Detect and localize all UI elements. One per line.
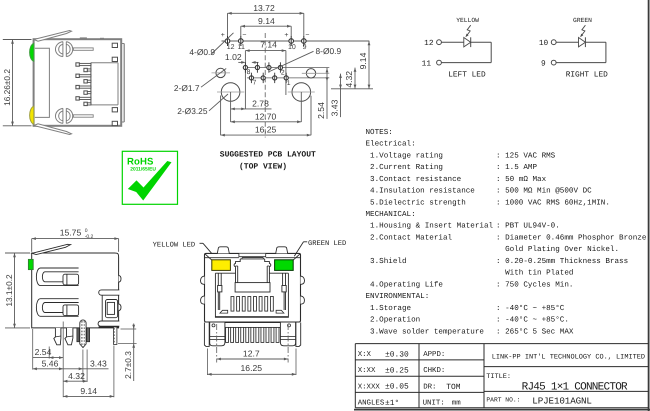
dim 9.14 (vert): [368, 41, 370, 89]
svg-text:13.72: 13.72: [253, 3, 275, 13]
svg-text:TITLE:: TITLE:: [486, 373, 511, 381]
svg-text:ENVIRONMENTAL:: ENVIRONMENTAL:: [366, 292, 430, 301]
cavity corner feet: [220, 310, 228, 313]
svg-text:: -40°C ~ +85°C.: : -40°C ~ +85°C.: [496, 316, 569, 325]
svg-text:CHKD:: CHKD:: [423, 367, 445, 375]
svg-text:−: −: [305, 32, 309, 39]
dim 3.43 (vert): [340, 74, 342, 118]
wire diode to corner: [471, 41, 492, 43]
dim 16.25 ext lines: [206, 349, 208, 376]
green LED (side view 2): [28, 259, 33, 269]
svg-text:10: 10: [539, 39, 549, 48]
svg-text:±0.30: ±0.30: [385, 350, 409, 359]
yellow LED lens (side view): [30, 106, 34, 124]
svg-text:: 125 VAC RMS: : 125 VAC RMS: [496, 151, 556, 160]
base left block: [210, 323, 225, 346]
side view body (top-left, gray): [34, 39, 122, 126]
top centre tab: [239, 254, 266, 257]
svg-text:: PBT UL94V-0.: : PBT UL94V-0.: [496, 222, 560, 231]
rows col3: [484, 366, 649, 368]
svg-text:APPD:: APPD:: [423, 351, 445, 359]
pcb ext lines: [227, 13, 229, 36]
lightning arrow (left led): [467, 25, 471, 36]
mount hole Ø1.7 left: [216, 68, 225, 77]
svg-text:: 0.20-0.25mm Thickness Brass: : 0.20-0.25mm Thickness Brass: [496, 257, 628, 266]
svg-text:Electrical:: Electrical:: [366, 140, 416, 149]
wire down: [490, 42, 492, 62]
svg-text:1.Voltage rating: 1.Voltage rating: [366, 151, 443, 160]
svg-text:11: 11: [238, 44, 245, 51]
svg-text:+: +: [221, 32, 225, 39]
green LED lens (side view): [30, 43, 34, 61]
base flange: [206, 322, 299, 324]
title block frame: [355, 343, 648, 345]
dim 15.75 0/-0.2: [32, 238, 119, 240]
spring contact U2: [36, 299, 78, 317]
svg-text:+: +: [284, 32, 288, 39]
inner top line: [205, 257, 239, 259]
dim 15.75 ext lines: [31, 239, 33, 252]
pin carrier block: [91, 63, 118, 105]
signal pins row2 (7,...,1): [249, 76, 253, 80]
top edge detail marks: [80, 37, 87, 39]
rows col1/2: [355, 359, 484, 361]
svg-text:RIGHT LED: RIGHT LED: [566, 71, 608, 80]
svg-text:2.Operation: 2.Operation: [366, 316, 421, 325]
svg-text:11: 11: [422, 60, 432, 69]
svg-text:2011/65/EU: 2011/65/EU: [130, 166, 156, 172]
svg-text:3.Shield: 3.Shield: [366, 257, 407, 266]
contact comb: [231, 297, 234, 312]
svg-text:YELLOW LED: YELLOW LED: [153, 242, 196, 250]
svg-text:: 1.5 AMP: : 1.5 AMP: [496, 164, 537, 172]
svg-text:: 50 mΩ Max: : 50 mΩ Max: [496, 175, 547, 184]
pins comb: [76, 63, 91, 65]
svg-text:4-Ø0.9: 4-Ø0.9: [189, 47, 215, 57]
dim 2.7±0.3 ext lines: [121, 328, 137, 330]
svg-text:16.25: 16.25: [255, 125, 277, 135]
side bumps right: [301, 276, 305, 284]
mounting post housing lip: [99, 290, 120, 295]
dim 12.7: [217, 358, 288, 360]
lightning arrow (right led): [581, 25, 585, 36]
dim 16.26±0.2 extension lines: [3, 39, 32, 41]
svg-text:GREEN: GREEN: [573, 17, 592, 24]
ext verticals bottom dims: [220, 96, 222, 136]
leader 8-Ø0.9: [270, 51, 314, 71]
base teeth: [225, 326, 281, 328]
svg-text:2.Contact Material: 2.Contact Material: [366, 234, 453, 243]
svg-text:±1°: ±1°: [385, 399, 399, 408]
dim 16.25: [221, 134, 311, 136]
dim 2.54 (vert): [326, 68, 328, 119]
pin 9 terminal: [551, 60, 556, 65]
svg-text:4.32: 4.32: [68, 371, 85, 381]
dim 3.43: [79, 367, 83, 370]
svg-text:7.14: 7.14: [260, 40, 277, 50]
wire pin 10 to diode: [556, 41, 578, 43]
svg-text:12: 12: [227, 44, 235, 51]
side view bottom latch blade: [34, 124, 72, 135]
svg-text:NOTES:: NOTES:: [366, 128, 393, 137]
dim 2.7±0.3: [133, 324, 135, 382]
latch inner walls: [237, 266, 239, 283]
pin 11 terminal: [437, 60, 442, 65]
svg-text:PART NO.:: PART NO.:: [486, 396, 520, 403]
leg 2: [65, 328, 73, 345]
svg-text:12: 12: [424, 39, 434, 48]
dim 2.78: [231, 108, 272, 110]
led pin row line: [222, 40, 370, 42]
svg-text:MECHANICAL:: MECHANICAL:: [366, 210, 416, 219]
svg-text:5.Dielectric strength: 5.Dielectric strength: [366, 198, 466, 207]
svg-text:16.26±0.2: 16.26±0.2: [2, 69, 12, 106]
svg-text:: -40°C ~ +85°C: : -40°C ~ +85°C: [496, 304, 565, 313]
svg-text:±0.25: ±0.25: [385, 367, 409, 376]
side view interior panel: [35, 48, 50, 117]
latch bottom block: [235, 283, 270, 292]
base screw circles: [212, 324, 215, 327]
svg-text:4.32: 4.32: [344, 71, 354, 88]
base right outer post: [296, 323, 301, 347]
svg-text:12.70: 12.70: [255, 112, 277, 122]
svg-text:3.43: 3.43: [330, 99, 340, 116]
corner slants: [205, 254, 212, 260]
svg-text:5.46: 5.46: [42, 359, 59, 369]
svg-text:: 500 MΩ Min @500V DC: : 500 MΩ Min @500V DC: [496, 187, 592, 196]
lower contact rod: [73, 115, 93, 117]
svg-text:: 750 Cycles Min.: : 750 Cycles Min.: [496, 280, 573, 289]
spring contact U1: [36, 268, 78, 286]
mount hole Ø1.7 right: [306, 69, 315, 78]
svg-text:3.43: 3.43: [90, 359, 107, 369]
svg-text:RJ45 1×1 CONNECTOR: RJ45 1×1 CONNECTOR: [522, 381, 628, 393]
led pins 12 11 10 9: [225, 39, 230, 44]
svg-text:1.02: 1.02: [225, 52, 242, 62]
svg-text:2.78: 2.78: [252, 99, 269, 109]
led hanger left: [217, 273, 219, 310]
svg-text:10: 10: [288, 44, 296, 51]
centre dash-dot lines: [216, 324, 218, 363]
wire to pin 11: [441, 62, 491, 64]
svg-text:9: 9: [541, 60, 546, 69]
svg-text:9.14: 9.14: [80, 386, 97, 396]
dim 4.32: [63, 380, 87, 382]
post hole Ø3.25 right: [292, 83, 311, 102]
svg-text:1.Storage: 1.Storage: [366, 304, 412, 313]
mounting post housing: [101, 295, 103, 321]
sheet bottom border: [354, 409, 650, 411]
svg-text:8-Ø0.9: 8-Ø0.9: [316, 46, 342, 56]
svg-text:-0.2: -0.2: [85, 234, 94, 240]
side view 2 body: [32, 253, 119, 328]
svg-text:4.Operating Life: 4.Operating Life: [366, 280, 444, 289]
svg-text:9.14: 9.14: [258, 16, 275, 26]
upper contact rod: [73, 48, 93, 50]
leader 2-Ø3.25: [209, 94, 228, 111]
svg-text:(TOP VIEW): (TOP VIEW): [239, 163, 287, 172]
dim 13.72: [228, 12, 304, 14]
svg-text:YELLOW: YELLOW: [456, 17, 479, 24]
yellow LED window: [212, 260, 231, 271]
svg-text:9.14: 9.14: [358, 52, 368, 69]
leader 4-Ø0.9: [211, 33, 234, 55]
plug cavity latch shoulders: [242, 258, 263, 259]
top mounting bumps: [217, 247, 229, 254]
svg-text:TOM: TOM: [446, 383, 460, 392]
svg-text:2-Ø1.7: 2-Ø1.7: [174, 83, 200, 93]
leg 1: [54, 328, 61, 345]
dim 16.25 front: [207, 373, 296, 375]
dim 16.26±0.2: [12, 40, 14, 126]
svg-text:7: 7: [253, 80, 257, 87]
dim 9.14 top: [241, 25, 291, 27]
svg-text:8: 8: [247, 69, 251, 76]
svg-text:: Diameter 0.46mm Phosphor Bro: : Diameter 0.46mm Phosphor Bronze: [496, 234, 647, 243]
shield tabs right edge: [112, 43, 117, 47]
dim 7.14: [244, 51, 246, 109]
dim 12.70: [231, 121, 302, 123]
svg-text:2.7±0.3: 2.7±0.3: [123, 351, 133, 379]
svg-text:16.25: 16.25: [241, 363, 263, 373]
green LED window: [275, 260, 294, 271]
svg-text:mm: mm: [452, 400, 461, 408]
svg-text:UNIT:: UNIT:: [423, 400, 445, 408]
wire down: [605, 42, 607, 62]
svg-text:X:X: X:X: [358, 351, 372, 359]
cavity bottom inner line: [215, 315, 288, 317]
wire pin 12 to diode: [441, 41, 463, 43]
base right block: [280, 323, 295, 346]
RoHS checkmark: [128, 161, 172, 201]
LED diode (right led): [579, 38, 586, 47]
led hanger right: [285, 273, 287, 310]
side view 2 latch blade: [32, 244, 71, 254]
svg-text:: 1000 VAC RMS 60Hz,1MIN.: : 1000 VAC RMS 60Hz,1MIN.: [496, 198, 610, 207]
svg-text:LINK-PP INT'L TECHNOLOGY CO.,: LINK-PP INT'L TECHNOLOGY CO., LIMITED: [492, 354, 645, 362]
dim 13.1±0.2: [14, 253, 16, 328]
lower contact lens pair: [55, 108, 62, 123]
ext line bottom right: [331, 88, 373, 90]
svg-text:3.Contact resistance: 3.Contact resistance: [366, 175, 462, 184]
RoHS logo box: [122, 151, 177, 204]
svg-text:2.Current Rating: 2.Current Rating: [366, 163, 443, 172]
svg-text:9: 9: [303, 44, 307, 51]
post sleeve bars: [77, 328, 79, 342]
wire diode to corner: [585, 41, 606, 43]
side view top latch blade: [34, 31, 72, 42]
svg-text:With tin Plated: With tin Plated: [496, 269, 573, 278]
lower dims ext verticals: [48, 347, 50, 359]
dim 9.14 bottom: [63, 395, 114, 397]
svg-text:X:XX: X:XX: [358, 367, 376, 375]
svg-text:−: −: [242, 32, 246, 39]
svg-text:ANGLES: ANGLES: [358, 400, 385, 408]
post hole Ø3.25 left: [221, 83, 240, 102]
svg-text:4.Insulation resistance: 4.Insulation resistance: [366, 187, 476, 196]
dim 2.54: [33, 357, 64, 359]
svg-text:DR:: DR:: [423, 383, 436, 391]
svg-text:LPJE101AGNL: LPJE101AGNL: [532, 395, 592, 406]
socket cavity walls: [215, 272, 288, 274]
svg-text:13.1±0.2: 13.1±0.2: [4, 274, 14, 307]
leader 2-Ø1.7: [201, 69, 226, 88]
right pin: [114, 327, 117, 344]
center dashed line: [264, 33, 266, 138]
base left outer post: [204, 323, 209, 347]
dim 5.46: [33, 368, 109, 370]
svg-text:1.Housing & Insert Material: 1.Housing & Insert Material: [366, 222, 494, 231]
dim 4.32 (vert): [354, 68, 356, 89]
dim 13.1±0.2 ext lines: [5, 252, 30, 254]
svg-text:RoHS: RoHS: [127, 157, 154, 168]
side bumps left: [201, 276, 205, 284]
svg-text:GREEN LED: GREEN LED: [308, 240, 346, 248]
svg-text:Gold Plating Over Nickel.: Gold Plating Over Nickel.: [496, 245, 619, 254]
svg-text:2: 2: [281, 70, 285, 77]
side view right panel: [123, 44, 125, 123]
svg-text:12.7: 12.7: [243, 348, 260, 358]
svg-text:±0.05: ±0.05: [385, 383, 409, 392]
svg-text:SUGGESTED PCB LAYOUT: SUGGESTED PCB LAYOUT: [220, 150, 316, 159]
svg-text:: 265°C 5 Sec MAX: : 265°C 5 Sec MAX: [496, 327, 574, 336]
LED diode (left led): [464, 38, 471, 47]
svg-text:3.Wave solder temperature: 3.Wave solder temperature: [366, 327, 485, 336]
front view outer body: [205, 253, 301, 322]
threaded post: [80, 320, 86, 348]
svg-text:15.75: 15.75: [60, 227, 82, 237]
wire to pin 9: [556, 62, 606, 64]
svg-text:LEFT LED: LEFT LED: [448, 71, 486, 80]
svg-text:2.54: 2.54: [35, 347, 52, 357]
signal pin row lines: [243, 67, 329, 69]
svg-text:2.54: 2.54: [316, 102, 326, 119]
yellow led leader: [200, 242, 204, 244]
right edge bumps: [119, 275, 121, 282]
sheet right border: [648, 0, 650, 411]
svg-text:2-Ø3.25: 2-Ø3.25: [177, 106, 208, 116]
green led leader: [304, 241, 308, 243]
svg-text:X:XXX: X:XXX: [358, 383, 381, 391]
upper contact lens pair: [55, 42, 62, 57]
svg-text:1: 1: [287, 80, 291, 87]
signal pins row1 (8,...,2): [243, 65, 247, 69]
